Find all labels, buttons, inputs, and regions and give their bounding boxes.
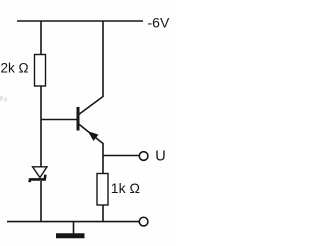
wire: emitter node to output terminal U (103, 155, 139, 157)
wire: base connection (41, 119, 77, 121)
terminal: output U circle (139, 152, 148, 161)
ground stub wire (73, 222, 75, 234)
transistor Q1 emitter arrow (PNP) (89, 132, 98, 141)
zener diode D1 triangle (33, 167, 47, 178)
terminal: bottom right circle (139, 217, 148, 226)
resistor 1k ohm body (97, 174, 108, 206)
wire: 2k resistor to zener anode (through base node) (40, 86, 42, 167)
transistor Q1 emitter lead (79, 124, 103, 156)
wire: bottom rail (7, 221, 139, 223)
resistor 2k ohm body (35, 55, 46, 87)
svg-text:1k Ω: 1k Ω (111, 180, 140, 196)
transistor Q1 collector lead (79, 21, 103, 115)
svg-text:U: U (155, 149, 165, 165)
wire: zener cathode to bottom rail (40, 181, 42, 222)
ground symbol bar (56, 233, 85, 238)
wire: left branch from rail to 2k resistor (40, 21, 42, 55)
zener diode D1 cathode bar (30, 175, 46, 183)
wire: emitter node down to 1k resistor (102, 156, 104, 174)
svg-text:-6V: -6V (148, 15, 170, 31)
wire: 1k resistor to bottom rail (102, 205, 104, 222)
transistor Q1 base bar (77, 107, 80, 131)
svg-text:2k Ω: 2k Ω (1, 61, 29, 76)
wire: top -6V rail (17, 20, 143, 22)
stray scan fragment at left edge (0, 96, 7, 102)
